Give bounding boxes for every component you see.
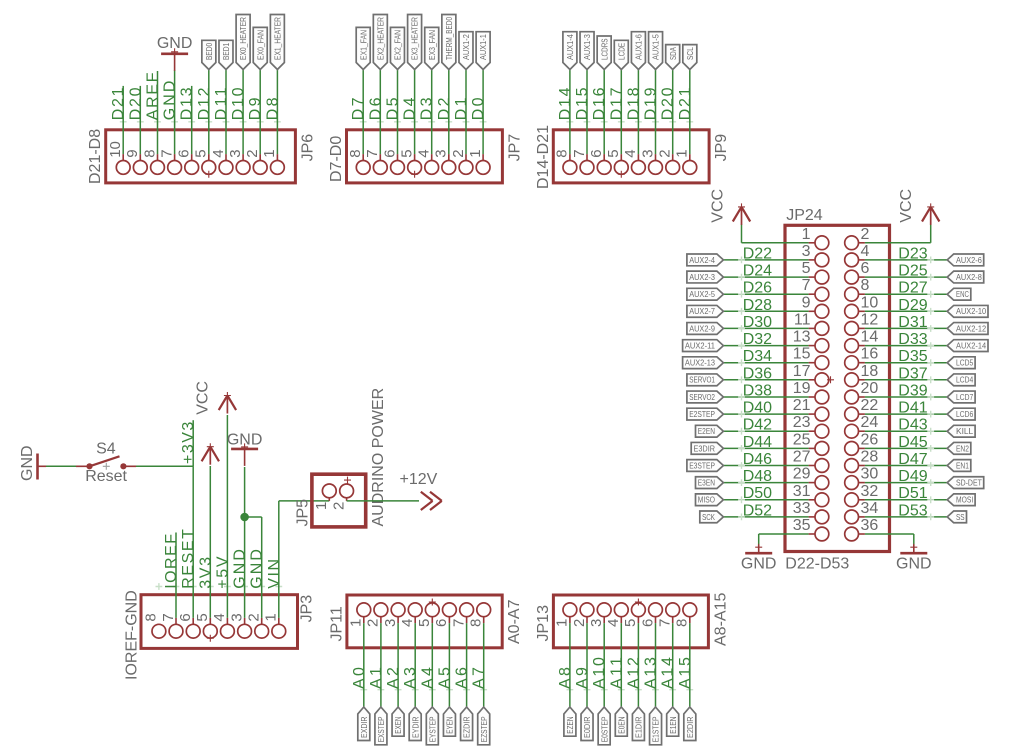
pin 10 of JP6: [116, 161, 130, 175]
wire net D35: [865, 362, 947, 364]
wire net GND: [174, 70, 176, 154]
svg-text:LCD7: LCD7: [956, 392, 973, 402]
wire net D18: [637, 70, 639, 155]
flag LCD5: [947, 357, 975, 369]
wire net D20: [672, 70, 674, 155]
wire net D30: [723, 327, 808, 329]
pin 21 of JP24: [815, 407, 829, 421]
flag LCDE: [614, 40, 628, 69]
svg-text:2: 2: [571, 619, 588, 627]
flag EX3_FAN: [425, 27, 439, 69]
pin 1 of JP6: [271, 161, 285, 175]
svg-text:8: 8: [143, 613, 160, 621]
svg-text:+12V: +12V: [400, 471, 438, 488]
svg-text:D14: D14: [557, 87, 574, 120]
svg-text:LCD4: LCD4: [956, 375, 973, 385]
svg-text:D3: D3: [419, 97, 436, 120]
flag LCD7: [947, 391, 975, 403]
svg-text:D20: D20: [127, 87, 144, 120]
svg-text:D1: D1: [453, 97, 470, 120]
wire net D19: [655, 70, 657, 155]
flag E2EN: [696, 425, 724, 437]
wire net D17: [620, 70, 622, 155]
flag E2STEP: [687, 408, 724, 420]
svg-text:8: 8: [861, 277, 870, 294]
svg-text:Reset: Reset: [85, 468, 127, 485]
svg-text:2: 2: [244, 149, 261, 157]
svg-text:4: 4: [210, 149, 227, 157]
svg-text:GND: GND: [227, 432, 263, 449]
svg-text:IOREF: IOREF: [163, 534, 180, 589]
svg-text:D13: D13: [179, 87, 196, 120]
svg-text:8: 8: [347, 149, 364, 157]
pin 3 of JP24: [815, 253, 829, 267]
svg-text:JP7: JP7: [506, 134, 523, 162]
wire net D28: [723, 310, 808, 312]
pin 31 of JP24: [815, 493, 829, 507]
wire net A11: [620, 623, 622, 707]
svg-text:AUX1-5: AUX1-5: [651, 34, 661, 60]
pin 30 of JP24: [845, 476, 859, 490]
wire net D44: [723, 447, 808, 449]
svg-text:3: 3: [588, 619, 605, 627]
svg-text:D48: D48: [743, 468, 772, 485]
pin 34 of JP24: [845, 510, 859, 524]
pin 23 of JP24: [815, 424, 829, 438]
pin 4 of JP24: [845, 253, 859, 267]
svg-text:AUX2-12: AUX2-12: [956, 323, 986, 333]
flag ENC: [947, 288, 971, 300]
wire net VIN to JP5: [278, 501, 280, 618]
svg-text:2: 2: [330, 502, 347, 510]
pin 14 of JP24: [845, 339, 859, 353]
svg-text:GND: GND: [232, 549, 249, 589]
pin 1 of JP9: [683, 161, 697, 175]
flag SERVO1: [687, 374, 724, 386]
svg-text:E2DIR: E2DIR: [685, 717, 695, 739]
svg-text:EX2_FAN: EX2_FAN: [393, 30, 403, 60]
pin 1 of JP3: [272, 624, 286, 638]
wire net A8: [569, 623, 571, 707]
flag EYSTEP: [426, 707, 438, 745]
flag AUX2-13: [683, 357, 724, 369]
svg-text:7: 7: [450, 619, 467, 627]
flag AUX1-4: [563, 32, 577, 70]
svg-text:E1DIR: E1DIR: [634, 717, 644, 739]
svg-text:AUX2-13: AUX2-13: [685, 358, 715, 368]
svg-text:28: 28: [861, 449, 879, 466]
flag AUX1-1: [476, 32, 490, 70]
svg-text:SCK: SCK: [702, 512, 715, 522]
wire net D43: [865, 430, 947, 432]
svg-text:D4: D4: [402, 97, 419, 120]
svg-text:2: 2: [861, 226, 870, 243]
svg-text:EX3_HEATER: EX3_HEATER: [410, 17, 420, 60]
svg-text:D10: D10: [230, 87, 247, 120]
origin cross JP24: [827, 376, 834, 383]
net label +3V3 stub: [192, 420, 194, 466]
svg-text:MOSI: MOSI: [956, 495, 973, 505]
svg-text:E3EN: E3EN: [698, 478, 715, 488]
svg-text:D52: D52: [743, 502, 772, 519]
pin 35 of JP24: [815, 527, 829, 541]
pin 9 of JP6: [133, 161, 147, 175]
origin cross JP9: [618, 171, 625, 178]
svg-text:E2STEP: E2STEP: [689, 409, 715, 419]
svg-text:3: 3: [227, 149, 244, 157]
wire net D11: [225, 70, 227, 155]
svg-text:D51: D51: [898, 485, 927, 502]
svg-text:LCD5: LCD5: [956, 358, 973, 368]
svg-text:D27: D27: [898, 280, 927, 297]
flag AUX2-9: [687, 323, 724, 335]
svg-text:AUX2-5: AUX2-5: [689, 289, 715, 299]
pin 18 of JP24: [845, 373, 859, 387]
flag MISO: [696, 494, 724, 506]
svg-text:IOREF-GND: IOREF-GND: [124, 590, 141, 680]
gnd symbol below JP24 pin 35: [745, 544, 772, 554]
svg-text:MISO: MISO: [698, 495, 715, 505]
svg-text:4: 4: [861, 243, 870, 260]
svg-text:11: 11: [794, 311, 811, 328]
wire net D26: [723, 293, 808, 295]
wire net A5: [448, 623, 450, 707]
svg-text:D17: D17: [608, 87, 625, 120]
svg-text:26: 26: [861, 431, 879, 448]
wire net D51: [865, 499, 947, 501]
svg-text:LCDRS: LCDRS: [599, 38, 609, 60]
wire net D8: [276, 70, 278, 155]
svg-text:22: 22: [861, 397, 879, 414]
pin 3 of JP7: [442, 161, 456, 175]
flag E3DIR: [691, 442, 723, 454]
wire net D15: [586, 70, 588, 155]
pin 5 of JP24: [815, 270, 829, 284]
svg-text:VCC: VCC: [194, 381, 211, 415]
svg-text:7: 7: [158, 149, 175, 157]
wire net D45: [865, 447, 947, 449]
wire net A10: [603, 623, 605, 707]
pin 17 of JP24: [815, 373, 829, 387]
wire net IOREF: [175, 533, 177, 618]
wire pin 36 to GND: [865, 533, 914, 535]
svg-text:D25: D25: [898, 263, 927, 280]
flag EZSTEP: [478, 707, 490, 745]
pin 2 of JP9: [666, 161, 680, 175]
wire net D3: [431, 70, 433, 155]
pin 1 of JP13: [563, 603, 577, 617]
svg-text:LCD6: LCD6: [956, 409, 973, 419]
flag AUX2-7: [687, 305, 724, 317]
svg-text:AUX2-11: AUX2-11: [685, 341, 715, 351]
wire net A3: [414, 623, 416, 707]
svg-text:7: 7: [802, 277, 811, 294]
wire net D12: [208, 70, 210, 155]
svg-text:D41: D41: [898, 400, 927, 417]
svg-text:EYEN: EYEN: [445, 717, 455, 734]
svg-text:AUX1-4: AUX1-4: [565, 34, 575, 60]
pin 8 of JP3: [152, 624, 166, 638]
svg-text:VCC: VCC: [709, 189, 726, 223]
svg-text:D5: D5: [385, 97, 402, 120]
wire VCC to pin 1: [742, 242, 809, 244]
pin 7 of JP24: [815, 287, 829, 301]
flag EZEN: [564, 707, 576, 736]
flag AUX2-14: [947, 340, 988, 352]
svg-text:D21: D21: [110, 87, 127, 120]
pin 19 of JP24: [815, 390, 829, 404]
pin 3 of JP9: [649, 161, 663, 175]
pin 22 of JP24: [845, 407, 859, 421]
svg-text:EXEN: EXEN: [393, 717, 403, 734]
svg-text:6: 6: [177, 613, 194, 621]
wire net D47: [865, 465, 947, 467]
wire net D7: [362, 70, 364, 155]
pin 15 of JP24: [815, 356, 829, 370]
pin 8 of JP9: [563, 161, 577, 175]
pin 5 of JP6: [202, 161, 216, 175]
flag EX3_HEATER: [408, 15, 422, 70]
svg-text:7: 7: [657, 619, 674, 627]
pin 4 of JP9: [632, 161, 646, 175]
wire net +5V (VCC): [226, 415, 228, 618]
svg-text:31: 31: [793, 483, 811, 500]
svg-text:EYSTEP: EYSTEP: [427, 716, 437, 742]
svg-text:GND: GND: [249, 549, 266, 589]
svg-text:D44: D44: [743, 434, 772, 451]
svg-text:D53: D53: [898, 502, 927, 519]
pin 8 of JP6: [151, 161, 165, 175]
flag EXEN: [392, 707, 404, 736]
wire net A4: [431, 623, 433, 707]
svg-text:D12: D12: [196, 87, 213, 120]
wire switch to RESET net: [136, 465, 193, 467]
pin 7 of JP9: [580, 161, 594, 175]
svg-text:D49: D49: [898, 468, 927, 485]
svg-text:15: 15: [793, 346, 811, 363]
flag AUX1-3: [580, 32, 594, 70]
wire net D22: [723, 259, 808, 261]
wire net D21: [689, 70, 691, 155]
svg-text:23: 23: [793, 414, 811, 431]
wire net D38: [723, 396, 808, 398]
connector JP7: [347, 130, 503, 183]
svg-text:A15: A15: [677, 657, 694, 689]
svg-text:D2: D2: [436, 97, 453, 120]
svg-text:D31: D31: [898, 314, 927, 331]
svg-text:25: 25: [793, 431, 811, 448]
svg-text:JP13: JP13: [535, 605, 552, 642]
wire net D14: [569, 70, 571, 155]
svg-text:D8: D8: [264, 97, 281, 120]
pin 8 of JP24: [845, 287, 859, 301]
svg-text:KILL: KILL: [956, 426, 973, 436]
pin 6 of JP13: [649, 603, 663, 617]
pin 1 of JP7: [476, 161, 490, 175]
svg-text:4: 4: [211, 613, 228, 621]
svg-text:D38: D38: [743, 383, 772, 400]
wire net D5: [397, 70, 399, 155]
switch S4: [76, 456, 136, 470]
svg-text:7: 7: [364, 149, 381, 157]
svg-text:19: 19: [793, 380, 811, 397]
wire net D36: [723, 379, 808, 381]
flag EYEN: [443, 707, 455, 736]
svg-text:10: 10: [107, 141, 124, 158]
wire net D50: [723, 499, 808, 501]
flag KILL: [947, 425, 975, 437]
svg-text:SS: SS: [956, 512, 965, 522]
svg-text:30: 30: [861, 466, 879, 483]
svg-text:7: 7: [160, 613, 177, 621]
svg-text:D46: D46: [743, 451, 772, 468]
svg-text:D22: D22: [743, 245, 772, 262]
wire net D49: [865, 482, 947, 484]
pin 4 of JP11: [408, 603, 422, 617]
svg-text:D14-D21: D14-D21: [535, 125, 552, 189]
svg-text:33: 33: [793, 500, 811, 517]
svg-text:D21-D8: D21-D8: [87, 129, 104, 184]
svg-text:2: 2: [365, 619, 382, 627]
svg-text:8: 8: [468, 619, 485, 627]
pin 1 of JP24: [815, 236, 829, 250]
wire net A1: [380, 623, 382, 707]
pin 13 of JP24: [815, 339, 829, 353]
svg-text:EX3_FAN: EX3_FAN: [427, 30, 437, 60]
wire net D1: [465, 70, 467, 155]
wire net GND pin3: [244, 467, 246, 618]
pin 29 of JP24: [815, 476, 829, 490]
flag E2DIR: [684, 707, 696, 741]
flag THERM_BED0: [442, 15, 456, 70]
wire net D41: [865, 413, 947, 415]
svg-text:GND: GND: [19, 445, 36, 481]
svg-text:D40: D40: [743, 400, 772, 417]
pin 36 of JP24: [845, 527, 859, 541]
pin 11 of JP24: [815, 322, 829, 336]
svg-text:24: 24: [861, 414, 879, 431]
flag BED1: [219, 40, 233, 69]
svg-text:GND: GND: [741, 556, 777, 573]
wire net A12: [637, 623, 639, 707]
svg-text:1: 1: [313, 502, 330, 510]
wire net D27: [865, 293, 947, 295]
wire net D52: [723, 516, 808, 518]
svg-text:AUX2-4: AUX2-4: [689, 255, 715, 265]
svg-text:3: 3: [382, 619, 399, 627]
svg-text:D11: D11: [213, 87, 230, 120]
wire net A2: [397, 623, 399, 707]
flag AUX2-4: [687, 254, 724, 266]
svg-text:4: 4: [605, 619, 622, 627]
junction: [241, 513, 249, 521]
svg-text:D21: D21: [677, 87, 694, 120]
flag AUX2-6: [947, 254, 984, 266]
wire net D24: [723, 276, 808, 278]
svg-text:E0STEP: E0STEP: [599, 716, 609, 742]
svg-text:D15: D15: [574, 87, 591, 120]
svg-text:D30: D30: [743, 314, 772, 331]
flag AUX2-3: [687, 271, 724, 283]
wire net GND pin2 branch: [245, 516, 262, 518]
svg-text:6: 6: [639, 619, 656, 627]
flag LCDRS: [597, 36, 611, 70]
pin 26 of JP24: [845, 442, 859, 456]
svg-text:EX1_FAN: EX1_FAN: [358, 30, 368, 60]
wire net A13: [655, 623, 657, 707]
svg-text:D34: D34: [743, 348, 772, 365]
svg-text:6: 6: [588, 149, 605, 157]
svg-text:1: 1: [554, 619, 571, 627]
pin 7 of JP11: [460, 603, 474, 617]
flag E1EN: [667, 707, 679, 736]
wire net D25: [865, 276, 947, 278]
svg-text:6: 6: [176, 149, 193, 157]
svg-text:EX2_HEATER: EX2_HEATER: [375, 17, 385, 60]
svg-text:GND: GND: [896, 556, 932, 573]
svg-text:AUX2-7: AUX2-7: [689, 306, 715, 316]
pin 4 of JP3: [221, 624, 235, 638]
flag E1DIR: [632, 707, 644, 741]
pin 24 of JP24: [845, 424, 859, 438]
wire net D2: [448, 70, 450, 155]
pin 2 of JP13: [580, 603, 594, 617]
wire net A0: [363, 623, 365, 707]
flag SDA: [666, 45, 680, 70]
pin 1 of JP11: [357, 603, 371, 617]
svg-text:JP3: JP3: [299, 595, 316, 623]
flag EX2_FAN: [390, 27, 404, 69]
svg-text:D45: D45: [898, 434, 927, 451]
svg-text:D20: D20: [660, 87, 677, 120]
svg-text:EYDIR: EYDIR: [410, 717, 420, 739]
pin 3 of JP6: [236, 161, 250, 175]
svg-text:+3V3: +3V3: [180, 422, 197, 464]
svg-text:2: 2: [657, 149, 674, 157]
connector JP6: [106, 130, 296, 183]
svg-text:12: 12: [861, 311, 879, 328]
svg-text:5: 5: [605, 149, 622, 157]
svg-text:35: 35: [793, 517, 811, 534]
pin 1 of JP5: [322, 484, 336, 498]
pin 5 of JP13: [632, 603, 646, 617]
svg-text:D23: D23: [898, 245, 927, 262]
wire net D39: [865, 396, 947, 398]
wire net AREF: [157, 71, 159, 154]
flag EYDIR: [409, 707, 421, 741]
svg-text:D7-D0: D7-D0: [328, 136, 345, 182]
svg-text:E3DIR: E3DIR: [694, 443, 716, 453]
flag E0DIR: [581, 707, 593, 741]
pin 5 of JP7: [408, 161, 422, 175]
flag LCD4: [947, 374, 975, 386]
svg-text:AUX1-2: AUX1-2: [461, 34, 471, 60]
gnd symbol below JP24 pin 36: [900, 544, 927, 554]
svg-text:9: 9: [124, 149, 141, 157]
svg-text:EX0_HEATER: EX0_HEATER: [238, 17, 248, 60]
pin 7 of JP3: [169, 624, 183, 638]
svg-text:D47: D47: [898, 451, 927, 468]
svg-text:1: 1: [263, 613, 280, 621]
svg-text:2: 2: [246, 613, 263, 621]
svg-text:5: 5: [802, 260, 811, 277]
svg-text:A0-A7: A0-A7: [506, 599, 523, 644]
svg-text:LCDE: LCDE: [616, 43, 626, 60]
svg-text:A12: A12: [625, 657, 642, 689]
flag EN1: [947, 460, 971, 472]
pin 8 of JP7: [356, 161, 370, 175]
wire net D34: [723, 362, 808, 364]
